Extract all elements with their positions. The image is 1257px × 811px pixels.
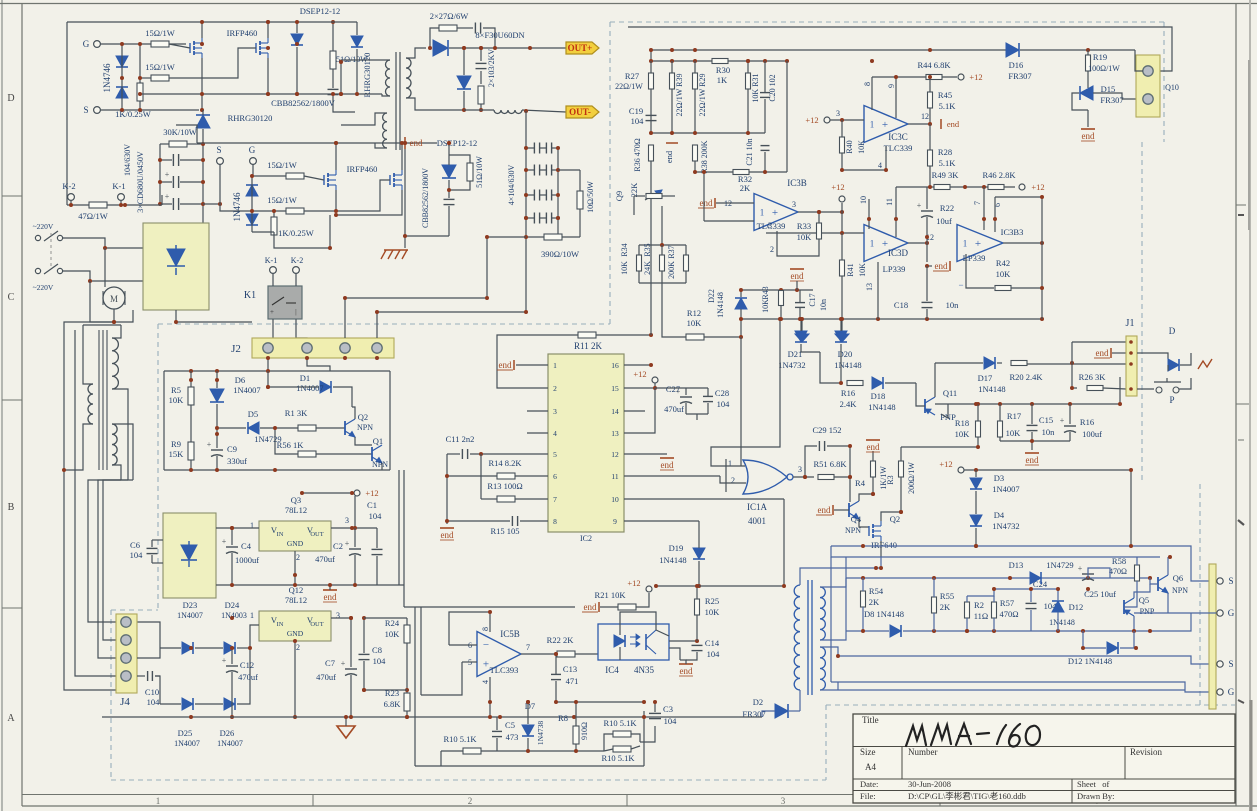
relay contact: [272, 297, 284, 305]
wire d23 row: [160, 647, 181, 649]
wire d21 bot: [801, 344, 820, 352]
wire q4 e: [859, 519, 869, 527]
node e38: [800, 317, 804, 321]
resistor R51 6.8K: [818, 475, 834, 480]
svg-text:12: 12: [611, 450, 619, 459]
wire IC3C out: [908, 123, 930, 125]
wire G lead: [100, 43, 186, 45]
svg-text:R17: R17: [1007, 411, 1021, 421]
connector out strip: [1209, 564, 1216, 709]
resistor R35 24K: [660, 255, 665, 271]
node e47: [1030, 439, 1034, 443]
wire r39 v: [671, 61, 673, 73]
node d8: [189, 468, 193, 472]
svg-text:R16: R16: [841, 388, 855, 398]
node f5: [1008, 576, 1012, 580]
svg-text:+: +: [207, 440, 212, 449]
junction dot x6: [266, 356, 270, 360]
aux sec upper: [112, 338, 118, 389]
node d43: [649, 333, 653, 337]
terminal +12 ic3c: [824, 117, 830, 123]
wire r51 out: [834, 477, 850, 502]
junction dot x51: [1134, 646, 1138, 650]
wire C4 v: [231, 528, 233, 545]
wire row631 ext: [1150, 613, 1191, 631]
node a3: [138, 42, 142, 46]
diode D3 1N4007: [970, 478, 982, 489]
wire S lead: [100, 109, 199, 111]
wire motor loop: [64, 322, 114, 470]
node e11: [693, 170, 697, 174]
wire R44 bus: [872, 76, 957, 78]
svg-text:12: 12: [921, 112, 929, 121]
wire d24 out: [250, 625, 259, 648]
wire R11 right: [596, 334, 651, 336]
resistor R11 2K: [578, 332, 596, 338]
node d32: [488, 715, 492, 719]
wire r35 v: [661, 245, 663, 255]
node c1: [524, 146, 528, 150]
svg-text:Q1: Q1: [373, 436, 383, 446]
transistor Q6 NPN: [1157, 577, 1159, 591]
aux transformer frame: [83, 324, 121, 326]
svg-text:GND: GND: [287, 629, 304, 638]
node a1: [120, 42, 124, 46]
wire IC5B in5: [462, 661, 477, 663]
node c14: [112, 320, 116, 324]
node a13: [200, 92, 204, 96]
connector J2 pad2: [302, 343, 312, 353]
wire bank row2: [160, 181, 172, 183]
svg-text:10K: 10K: [620, 261, 629, 275]
svg-text:470Ω: 470Ω: [1109, 567, 1127, 576]
wire pin1 lead: [516, 364, 548, 366]
terminal K-1 b: [270, 267, 277, 274]
junction dot x39: [848, 444, 852, 448]
junction dot x25: [867, 217, 871, 221]
resistor 15R/1W c: [286, 173, 304, 179]
svg-text:24K: 24K: [643, 261, 652, 275]
wire snub mid: [457, 27, 473, 29]
svg-text:R15 105: R15 105: [490, 526, 519, 536]
row divider 1: [2, 195, 22, 197]
svg-text:R34: R34: [620, 243, 629, 256]
junction dot x54: [1168, 555, 1172, 559]
capacitor C2 470uf: [349, 548, 361, 550]
wire sec bottom: [406, 98, 464, 110]
svg-text:3: 3: [336, 611, 340, 620]
wire box out right: [389, 371, 391, 470]
wire t2 prim bot: [799, 690, 801, 711]
svg-text:C5: C5: [505, 720, 515, 730]
junction dot x67: [174, 320, 178, 324]
node d35: [695, 639, 699, 643]
svg-text:R20 2.4K: R20 2.4K: [1009, 372, 1043, 382]
wire dsep2 loop top: [449, 155, 470, 163]
earth symbol: [384, 249, 408, 251]
svg-text:3×CD680U/0450V: 3×CD680U/0450V: [136, 151, 145, 213]
wire r38 bottom: [694, 161, 696, 172]
svg-text:200Ω/1W: 200Ω/1W: [907, 462, 916, 494]
resistor R20 2.4K: [1011, 361, 1027, 366]
svg-text:J1: J1: [1126, 318, 1135, 329]
resistor R57 470R: [992, 602, 997, 618]
svg-text:R46 2.8K: R46 2.8K: [982, 170, 1016, 180]
svg-text:10K R31: 10K R31: [751, 73, 760, 102]
svg-text:10K: 10K: [385, 629, 401, 639]
wire pin7 v: [983, 187, 985, 230]
junction dot x26: [982, 217, 986, 221]
node c2: [524, 168, 528, 172]
terminal out S2: [1217, 661, 1223, 667]
wire tr bus y172: [695, 171, 787, 173]
wire damp bot: [480, 104, 482, 110]
svg-text:Q2: Q2: [890, 514, 900, 524]
wire K2 stub: [70, 200, 72, 205]
resistor R26 3K: [1087, 386, 1103, 391]
wire opto in top: [619, 624, 621, 635]
node e12: [763, 170, 767, 174]
wire IC5B gnd: [489, 677, 491, 717]
svg-text:+: +: [222, 537, 227, 546]
wire q9 to rbus: [661, 206, 663, 245]
svg-text:D1: D1: [300, 373, 310, 383]
wire q5 c: [1134, 584, 1150, 598]
wire Q3 gnd pin: [294, 551, 296, 585]
junction dot x61: [230, 526, 234, 530]
svg-text:RHRG30120: RHRG30120: [228, 113, 273, 123]
svg-text:C21 10n: C21 10n: [745, 138, 754, 165]
node e41: [1070, 361, 1074, 365]
svg-text:2: 2: [468, 796, 473, 806]
wire IC3C in: [830, 119, 864, 121]
wire r17 v: [999, 404, 1001, 421]
wire R10a left: [440, 751, 442, 766]
svg-text:Title: Title: [862, 715, 879, 725]
resistor R44 6.8K: [926, 75, 942, 80]
resistor R24 10K: [404, 625, 410, 643]
node e8: [670, 131, 674, 135]
svg-text:R8: R8: [558, 713, 568, 723]
svg-text:22K: 22K: [629, 182, 639, 198]
junction dot x20: [870, 59, 874, 63]
node d4: [266, 385, 270, 389]
svg-text:Sheet of: Sheet of: [1077, 779, 1110, 789]
wire pulse box left edge: [845, 578, 847, 631]
svg-text:Q12: Q12: [289, 585, 304, 595]
svg-text:D25: D25: [178, 728, 193, 738]
wire d21 top: [800, 319, 802, 331]
connector J2 strip: [252, 338, 394, 358]
capacitor snubber stage1: [328, 88, 339, 90]
wire snub loop: [430, 28, 439, 48]
wire pin9 lead: [624, 520, 699, 522]
wire long v1: [420, 607, 422, 695]
node e21: [876, 317, 880, 321]
connector J1 strip: [1126, 336, 1137, 396]
wire R8 v: [575, 702, 577, 726]
node d11: [300, 491, 304, 495]
title col b: [1124, 747, 1126, 780]
junction dot x40: [803, 475, 807, 479]
wire capbank2 left rail: [525, 111, 527, 312]
node f2: [1129, 544, 1133, 548]
capacitor R22 10uf: [921, 210, 933, 212]
border bottom frame line: [22, 794, 853, 796]
svg-text:C10: C10: [145, 687, 159, 697]
wire R22 v: [926, 187, 928, 209]
node d31: [572, 715, 576, 719]
wire K1 stub: [120, 200, 122, 205]
wire aux sec1 b: [112, 389, 128, 480]
svg-text:51Ω/10W: 51Ω/10W: [475, 156, 484, 188]
node d33: [488, 610, 492, 614]
node c4: [524, 216, 528, 220]
svg-text:TLC393: TLC393: [490, 665, 519, 675]
svg-text:D24: D24: [225, 600, 240, 610]
wire r2r57 top: [967, 589, 994, 596]
wire choke feed: [464, 109, 494, 111]
wire stage2 source drop: [329, 215, 331, 248]
wire J2 pad4 up: [376, 312, 378, 338]
resistor 15R/1W a: [151, 41, 169, 47]
wire capbank left rail: [159, 144, 161, 204]
svg-text:R55: R55: [940, 591, 954, 601]
resistor R25 10K: [695, 599, 700, 615]
capacitor C20: [760, 92, 770, 94]
junction dot x37: [974, 402, 978, 406]
wire mos-c gate: [304, 176, 324, 180]
wire J2 pad3 up: [344, 298, 346, 338]
resistor R12 10K: [686, 334, 704, 340]
wire 1K bottom: [139, 101, 141, 110]
svg-text:Q5: Q5: [1139, 595, 1149, 605]
wire gb2: [841, 319, 843, 334]
zener 1N4746 upper: [116, 56, 128, 67]
junction dot x55: [695, 584, 699, 588]
svg-text:104: 104: [147, 697, 161, 707]
junction dot x21: [894, 75, 898, 79]
wire q5q6 join: [1134, 612, 1191, 614]
resistor R43 10K: [779, 291, 784, 306]
capacitor C13 471: [551, 673, 561, 675]
row divider 3: [2, 607, 22, 609]
switch link dashed: [50, 233, 52, 266]
svg-text:104: 104: [631, 116, 645, 126]
wire dsep cap: [448, 190, 450, 198]
wire end J1 lead: [1112, 352, 1126, 354]
node d15: [230, 583, 234, 587]
wire d2 left: [762, 711, 775, 717]
wire s2 to bank: [203, 203, 220, 205]
zener D22 1N4148: [735, 298, 747, 309]
svg-text:1N4738: 1N4738: [536, 721, 545, 745]
resistor 15R/1W b: [151, 75, 169, 81]
junction dot x83: [138, 76, 142, 80]
svg-text:78L12: 78L12: [285, 595, 307, 605]
svg-text:1N4148: 1N4148: [834, 360, 861, 370]
node b2: [250, 209, 254, 213]
terminal +12 r46: [1019, 184, 1025, 190]
svg-text:+: +: [345, 539, 350, 548]
title row line2: [853, 778, 1235, 780]
wire d23 left: [137, 622, 160, 648]
svg-text:Q4: Q4: [851, 514, 862, 524]
wire prim top: [341, 60, 390, 94]
node e37: [1040, 286, 1044, 290]
right margin tick e: [1236, 403, 1250, 405]
wire c24 top link: [994, 588, 1058, 590]
zener D13 1N4729: [1030, 572, 1041, 584]
node e13: [660, 243, 664, 247]
wire Q12 out bus: [364, 617, 407, 619]
wire IC3D pin11: [895, 187, 897, 237]
wire R21 out: [636, 593, 649, 607]
wire pulse bus1: [831, 546, 1216, 581]
terminal G: [94, 41, 101, 48]
wire R23 v: [406, 690, 408, 693]
wire ctrlbox left: [163, 371, 165, 470]
opto arrows: [630, 636, 640, 638]
node d47: [445, 519, 449, 523]
wire IC5B out: [521, 653, 556, 655]
svg-text:1N4732: 1N4732: [992, 521, 1019, 531]
wire mains a: [63, 238, 143, 248]
wire y404 drop: [1119, 377, 1121, 404]
junction dot x70: [343, 296, 347, 300]
node f7: [1148, 576, 1152, 580]
right margin tick a: [1236, 204, 1246, 206]
junction dot x65: [215, 378, 219, 382]
svg-text:D18: D18: [871, 391, 886, 401]
svg-text:104: 104: [707, 649, 721, 659]
wire d3 v: [975, 470, 977, 477]
node e56b: [778, 317, 782, 321]
svg-text:3: 3: [345, 516, 349, 525]
node d13: [353, 526, 357, 530]
wire q2 s: [880, 541, 882, 557]
terminal +12 ic2: [652, 377, 658, 383]
wire d20 bot: [840, 344, 842, 383]
inductor output choke: [494, 110, 522, 114]
wire t2 sec2 top: [820, 647, 838, 656]
node d29: [189, 715, 193, 719]
node e34: [925, 241, 929, 245]
diode D25: [182, 698, 193, 710]
svg-text:7: 7: [553, 495, 557, 504]
wire nor in1: [711, 319, 780, 466]
wire 51R-cap: [332, 69, 334, 88]
zener D5 1N4729: [248, 422, 259, 434]
node e26: [840, 118, 844, 122]
junction dot x75: [403, 141, 407, 145]
capacitor C25 10uf: [1082, 573, 1094, 575]
svg-text:+: +: [165, 170, 170, 179]
wire R28 v: [929, 124, 931, 150]
wire 51R top: [332, 22, 334, 51]
junction dot x48: [965, 629, 969, 633]
node f4: [932, 576, 936, 580]
wire R13 right: [515, 498, 548, 500]
wire C8 v: [363, 618, 365, 653]
svg-text:22Ω/1W R29: 22Ω/1W R29: [698, 74, 707, 117]
wire long v3: [643, 711, 645, 766]
svg-text:end: end: [664, 150, 674, 163]
wire IC3D pin13: [877, 262, 879, 319]
wire opto e: [669, 648, 680, 660]
capacitor C10 104: [147, 671, 149, 681]
svg-text:FR307: FR307: [1100, 95, 1123, 105]
transistor Q1 NPN: [371, 447, 373, 461]
svg-text:1N4148: 1N4148: [868, 402, 895, 412]
wire c14 v: [686, 652, 697, 660]
svg-text:1: 1: [250, 521, 254, 530]
node d39: [574, 700, 578, 704]
zener D12 1N4148: [1052, 601, 1064, 612]
dashed boundary pulse right: [1199, 484, 1201, 705]
wire bank2 row2: [526, 169, 534, 171]
wire zener2 col: [251, 176, 253, 232]
svg-text:R10 5.1K: R10 5.1K: [601, 753, 635, 763]
capacitor bank2 r4: [533, 213, 535, 224]
svg-text:910Ω: 910Ω: [580, 722, 589, 740]
svg-text:+12: +12: [365, 488, 378, 498]
svg-text:Q9: Q9: [614, 191, 624, 201]
capacitor C7 470uf: [345, 668, 357, 670]
wire J2 pad1 down: [267, 358, 269, 371]
connector J2 pad4: [372, 343, 382, 353]
zener 1N4746 lower: [116, 87, 128, 98]
diode output F30U60DN: [433, 40, 448, 56]
svg-text:R22: R22: [940, 203, 954, 213]
wire c15 v: [1031, 404, 1033, 424]
svg-text:104: 104: [130, 550, 144, 560]
border left inner line: [21, 3, 23, 806]
svg-text:−: −: [483, 639, 489, 651]
node c12: [103, 246, 107, 250]
svg-text:10K: 10K: [169, 395, 185, 405]
ground blue 2: [835, 334, 849, 342]
wire x787 drop: [786, 61, 788, 172]
opamp IC3B3 LP339: [957, 225, 1003, 262]
terminal S2: [217, 158, 224, 165]
node b4: [334, 141, 338, 145]
node b13: [462, 46, 466, 50]
wire d25 row: [160, 703, 181, 705]
junction dot x24: [894, 217, 898, 221]
wire t2 prim top: [800, 568, 881, 585]
junction dot x58: [554, 652, 558, 656]
wire R12 left: [662, 283, 686, 337]
wire R33 v: [818, 212, 820, 223]
svg-text:~220V: ~220V: [33, 283, 54, 292]
wire r18 v: [977, 404, 979, 421]
svg-text:1N4003: 1N4003: [221, 611, 247, 620]
wire bank row1: [160, 159, 172, 161]
wire R10a row: [441, 750, 463, 752]
junction dot x78: [447, 141, 451, 145]
wire 15R b lead: [140, 77, 151, 79]
junction dot x3: [295, 42, 299, 46]
svg-text:30K/10W: 30K/10W: [163, 127, 197, 137]
junction dot x32: [925, 235, 929, 239]
dashed boundary control left lower: [110, 610, 112, 780]
svg-text:471: 471: [566, 676, 579, 686]
wire IC2 pin14 stub: [624, 410, 645, 412]
wire IC3C pin4: [885, 146, 887, 170]
node d18: [328, 583, 332, 587]
node e3: [693, 59, 697, 63]
